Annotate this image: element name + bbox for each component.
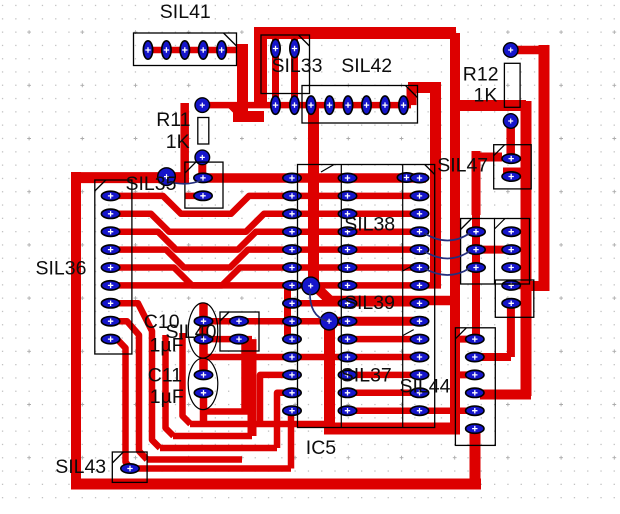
svg-text:IC5: IC5 [306, 437, 337, 459]
svg-text:SIL42: SIL42 [341, 55, 392, 77]
svg-text:1K: 1K [166, 131, 190, 153]
svg-text:SIL37: SIL37 [341, 365, 392, 387]
svg-text:SIL43: SIL43 [55, 456, 106, 478]
svg-text:SIL35: SIL35 [126, 173, 177, 195]
svg-text:SIL38: SIL38 [344, 214, 395, 236]
svg-text:1K: 1K [474, 85, 498, 107]
svg-text:SIL33: SIL33 [272, 55, 323, 77]
svg-text:SIL44: SIL44 [400, 376, 451, 398]
svg-text:C11: C11 [148, 365, 182, 387]
svg-text:SIL47: SIL47 [437, 155, 488, 177]
svg-text:1µF: 1µF [150, 386, 184, 408]
svg-text:R12: R12 [463, 64, 499, 86]
svg-text:SIL36: SIL36 [36, 258, 87, 280]
svg-text:SIL39: SIL39 [344, 292, 395, 314]
svg-text:SIL41: SIL41 [160, 1, 211, 23]
svg-text:R11: R11 [156, 109, 190, 131]
svg-text:SIL40: SIL40 [166, 321, 217, 343]
